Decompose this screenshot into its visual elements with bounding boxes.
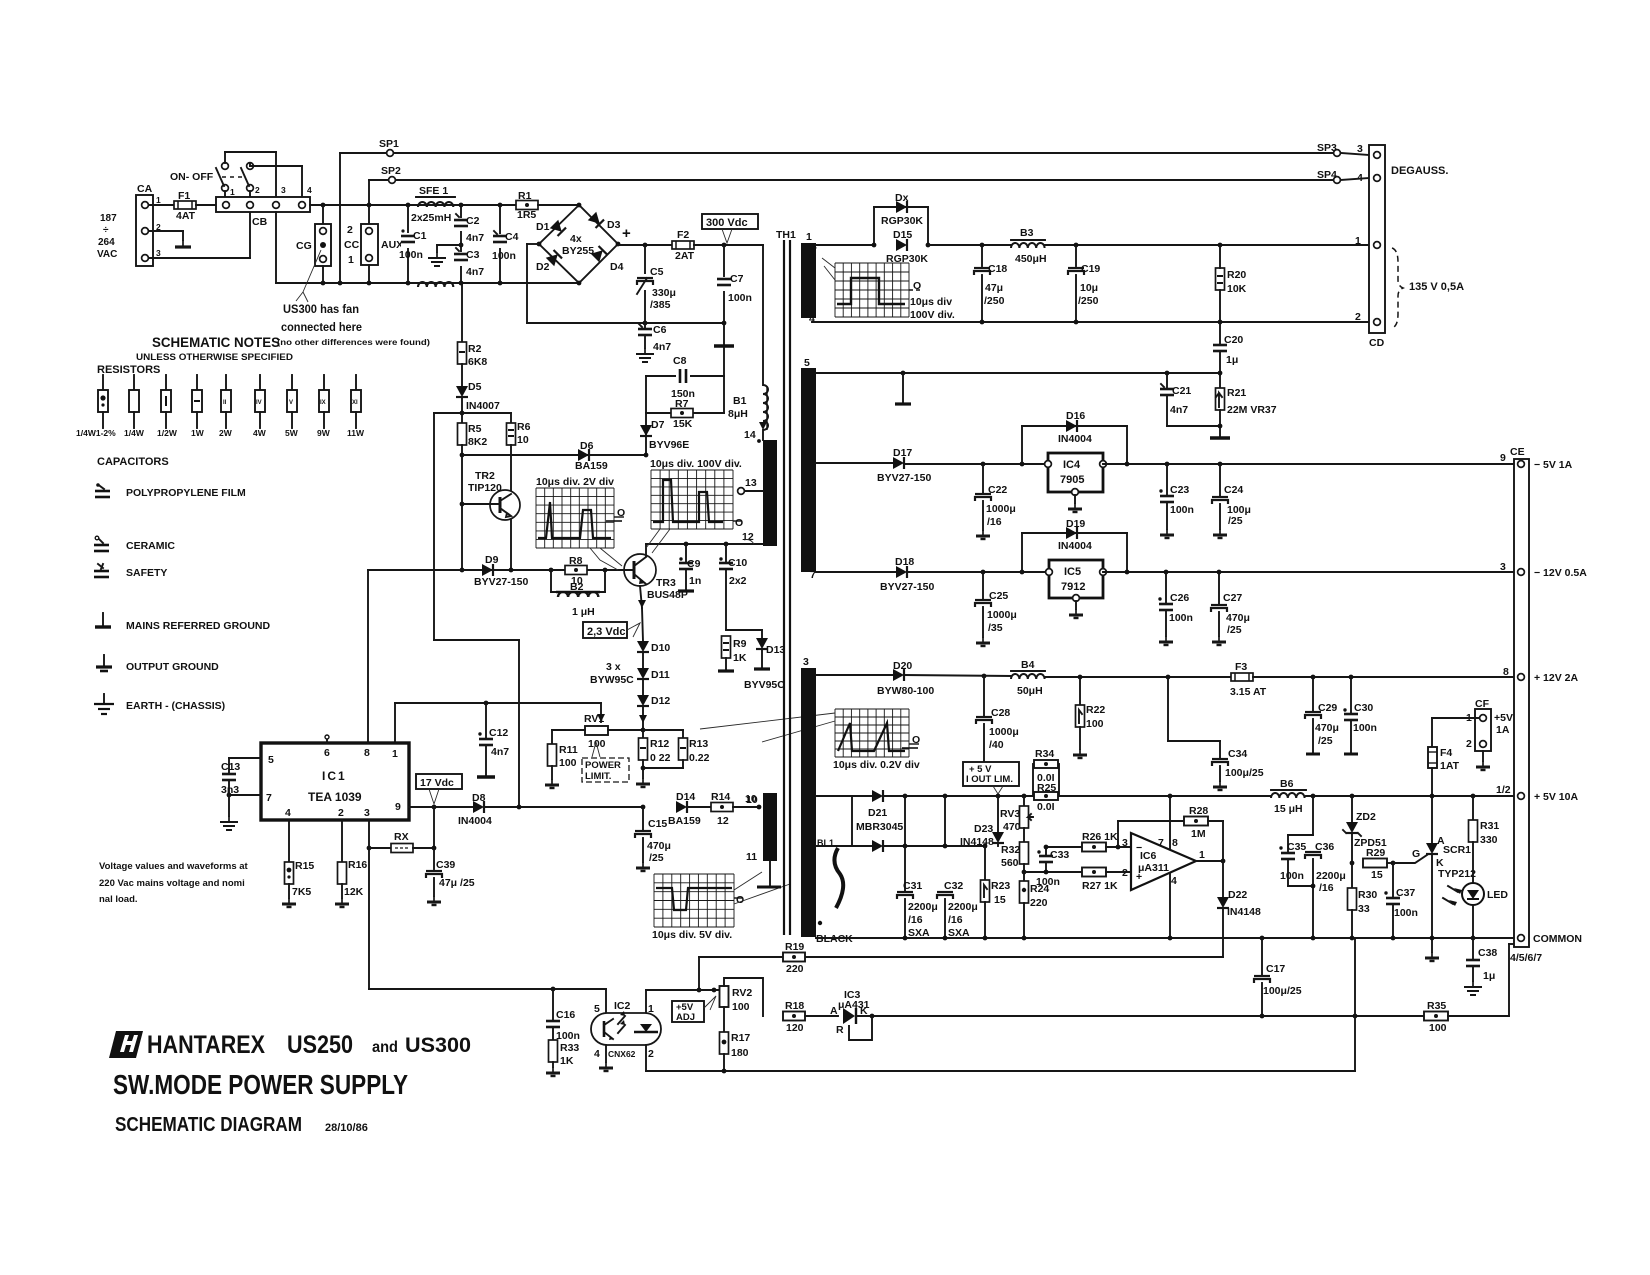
svg-text:12K: 12K bbox=[344, 886, 364, 898]
capacitor C9 1n bbox=[678, 544, 701, 591]
svg-text:SW.MODE POWER SUPPLY: SW.MODE POWER SUPPLY bbox=[113, 1069, 408, 1100]
TH1 lower primary bar pins 10-11 bbox=[745, 793, 781, 887]
svg-text:/40: /40 bbox=[989, 739, 1004, 751]
svg-text:− 12V 0.5A: − 12V 0.5A bbox=[1534, 567, 1587, 579]
svg-text:TIP120: TIP120 bbox=[468, 482, 502, 494]
svg-text:14: 14 bbox=[744, 429, 756, 441]
svg-text:IC2: IC2 bbox=[614, 1000, 631, 1012]
svg-text:1: 1 bbox=[348, 254, 354, 266]
svg-text:POLYPROPYLENE FILM: POLYPROPYLENE FILM bbox=[126, 487, 246, 499]
capacitor C1 100n bbox=[399, 205, 427, 283]
svg-text:4/5/6/7: 4/5/6/7 bbox=[1510, 952, 1542, 964]
svg-text:TYP212: TYP212 bbox=[1438, 868, 1476, 880]
diode D20 BYW80-100 bbox=[877, 660, 1011, 697]
wire CA pin1 to F1 bbox=[149, 204, 174, 206]
diode D1 bbox=[536, 220, 566, 236]
svg-text:CG: CG bbox=[296, 240, 312, 252]
svg-text:−: − bbox=[1136, 842, 1142, 854]
svg-text:RV2: RV2 bbox=[732, 987, 752, 999]
capacitor C21 4n7 bbox=[1160, 373, 1191, 426]
diode D23 IN4148 bbox=[960, 796, 1004, 848]
wire feedback line R19 bbox=[699, 957, 1223, 990]
diode D12 bbox=[637, 679, 670, 729]
svg-text:2x2: 2x2 bbox=[729, 575, 747, 587]
svg-text:C31: C31 bbox=[903, 880, 922, 892]
svg-text:IC6: IC6 bbox=[1140, 850, 1157, 862]
capacitor C24 100u/25 bbox=[1212, 464, 1251, 538]
svg-text:1: 1 bbox=[156, 195, 161, 205]
wire IC6 supply riser bbox=[1169, 796, 1171, 849]
resistor R2 6K8 bbox=[458, 283, 488, 368]
svg-text:B3: B3 bbox=[1020, 227, 1034, 239]
svg-text:2200μ: 2200μ bbox=[948, 901, 978, 913]
svg-text:R17: R17 bbox=[731, 1032, 750, 1044]
op-amp IC6 uA311 bbox=[1122, 833, 1205, 890]
svg-text:2: 2 bbox=[1122, 867, 1128, 879]
3x BYW95C label bbox=[590, 661, 634, 686]
svg-text:2: 2 bbox=[255, 185, 260, 195]
svg-text:D7: D7 bbox=[651, 419, 665, 431]
svg-text:3: 3 bbox=[1357, 143, 1363, 155]
svg-text:D13: D13 bbox=[766, 644, 785, 656]
SP4 bbox=[1317, 169, 1369, 184]
TH1 primary winding bar bbox=[763, 440, 777, 546]
svg-text:2: 2 bbox=[1355, 311, 1361, 323]
legend output ground bbox=[96, 655, 219, 673]
svg-text:TR3: TR3 bbox=[656, 577, 676, 589]
svg-text:/25: /25 bbox=[1227, 624, 1242, 636]
capacitor C29 470u/25 bbox=[1305, 677, 1339, 754]
svg-text:3: 3 bbox=[1122, 837, 1128, 849]
svg-text:BYV27-150: BYV27-150 bbox=[474, 576, 528, 588]
svg-text:D4: D4 bbox=[610, 261, 624, 273]
svg-text:C38: C38 bbox=[1478, 947, 1497, 959]
svg-text:R2: R2 bbox=[468, 343, 482, 355]
legend resistor 1/2W bbox=[157, 375, 178, 438]
svg-text:D3: D3 bbox=[607, 219, 621, 231]
svg-text:100n: 100n bbox=[728, 292, 752, 304]
svg-text:2: 2 bbox=[648, 1048, 654, 1060]
legend ceramic cap bbox=[94, 536, 175, 552]
legend resistor 1/4W 1-2% bbox=[76, 375, 116, 438]
inductor B6 15uH bbox=[1271, 778, 1306, 815]
svg-text:7905: 7905 bbox=[1060, 474, 1084, 486]
capacitor C7 100n bbox=[716, 245, 752, 323]
wire IC6 non-inverting line bbox=[1024, 870, 1082, 875]
svg-text:D17: D17 bbox=[893, 447, 912, 459]
svg-text:US250: US250 bbox=[287, 1031, 353, 1059]
svg-text:and: and bbox=[372, 1039, 398, 1056]
legend resistor 11W bbox=[347, 375, 365, 438]
svg-text:10μ: 10μ bbox=[1080, 282, 1098, 294]
svg-text:3: 3 bbox=[364, 807, 370, 819]
switch S1 pole 1 bbox=[216, 152, 276, 197]
legend earth chassis ground bbox=[94, 694, 225, 714]
svg-text:6K8: 6K8 bbox=[468, 356, 487, 368]
diode D18 BYV27-150 bbox=[880, 556, 1049, 593]
svg-text:10μs div. 2V div: 10μs div. 2V div bbox=[536, 476, 614, 488]
svg-text:D2: D2 bbox=[536, 261, 550, 273]
resistor R17 180 bbox=[720, 1007, 751, 1073]
wire IC1 pin3 down to opto bus bbox=[369, 820, 606, 991]
svg-text:R27 1K: R27 1K bbox=[1082, 880, 1118, 892]
svg-text:LIMIT.: LIMIT. bbox=[585, 771, 611, 782]
resistor R16 12K bbox=[335, 820, 367, 907]
svg-text:180: 180 bbox=[731, 1047, 749, 1059]
inductor B4 50uH bbox=[1011, 659, 1045, 697]
svg-text:C35: C35 bbox=[1287, 841, 1306, 853]
diode D3 bbox=[588, 212, 621, 231]
diode D11 bbox=[637, 652, 670, 681]
svg-text:V: V bbox=[289, 400, 293, 406]
svg-text:1000μ: 1000μ bbox=[989, 726, 1019, 738]
capacitor C3 4n7 bbox=[454, 245, 484, 283]
TH1 secondary bar A pins 1-4 bbox=[801, 231, 816, 325]
TH1 secondary bar C pin 3 bbox=[801, 656, 853, 945]
135V 0,5A brace bbox=[1392, 248, 1464, 328]
diode D8 IN4004 bbox=[458, 792, 645, 827]
svg-text:10μs div. 0.2V div: 10μs div. 0.2V div bbox=[833, 759, 920, 771]
capacitor C37 100n bbox=[1384, 863, 1418, 938]
svg-text:IN4004: IN4004 bbox=[458, 815, 492, 827]
svg-text:1 μH: 1 μH bbox=[572, 606, 595, 618]
thyristor SCR1 TYP212 bbox=[1412, 796, 1476, 938]
svg-text:4: 4 bbox=[307, 185, 312, 195]
capacitor C28 1000u/40 bbox=[976, 676, 1019, 772]
svg-text:B1: B1 bbox=[733, 395, 747, 407]
svg-text:RGP30K: RGP30K bbox=[881, 215, 923, 227]
resistor R5 8K2 bbox=[458, 413, 488, 455]
svg-text:5: 5 bbox=[268, 754, 274, 766]
resistor R13 0.22 bbox=[641, 730, 710, 770]
svg-text:1K: 1K bbox=[733, 652, 747, 664]
capacitor C15 470u/25 bbox=[635, 807, 671, 871]
wire CA pin2 to mains ground bbox=[149, 231, 191, 247]
svg-text:C37: C37 bbox=[1396, 887, 1415, 899]
svg-text:15 μH: 15 μH bbox=[1274, 803, 1303, 815]
svg-text:IN4004: IN4004 bbox=[1058, 433, 1092, 445]
svg-text:C1: C1 bbox=[413, 230, 427, 242]
svg-text:R33: R33 bbox=[560, 1042, 579, 1054]
svg-text:1W: 1W bbox=[191, 428, 205, 438]
svg-text:7K5: 7K5 bbox=[292, 886, 311, 898]
svg-text:4n7: 4n7 bbox=[1170, 404, 1188, 416]
wire D21 cathode rail lower bbox=[905, 844, 987, 849]
svg-text:11W: 11W bbox=[347, 428, 365, 438]
legend resistor 1W bbox=[191, 375, 205, 438]
svg-text:Dx: Dx bbox=[895, 192, 909, 204]
wire TH1 pin5 line bbox=[816, 371, 1222, 376]
shunt regulator IC3 uA431 bbox=[830, 989, 874, 1040]
svg-text:R12: R12 bbox=[650, 738, 669, 750]
wire opto top line to RV2 bbox=[699, 988, 718, 993]
svg-text:100: 100 bbox=[732, 1001, 750, 1013]
svg-text:RV3: RV3 bbox=[1000, 808, 1020, 820]
svg-text:CE: CE bbox=[1510, 446, 1525, 458]
svg-text:R31: R31 bbox=[1480, 820, 1499, 832]
svg-text:R22: R22 bbox=[1086, 704, 1105, 716]
capacitor C13 3n3 bbox=[220, 758, 261, 830]
wire +5V rail to B6 bbox=[1059, 794, 1271, 799]
svg-text:IC5: IC5 bbox=[1064, 566, 1081, 578]
diode D17 BYV27-150 bbox=[877, 447, 1048, 484]
SP1 spark gap bbox=[340, 138, 1333, 283]
svg-text:3 x: 3 x bbox=[606, 661, 621, 673]
capacitor C38 1u bbox=[1464, 936, 1497, 995]
svg-text:C25: C25 bbox=[989, 590, 1008, 602]
wire R29 to SCR gate bbox=[1393, 855, 1427, 863]
svg-text:100μ/25: 100μ/25 bbox=[1263, 985, 1302, 997]
svg-text:50μH: 50μH bbox=[1017, 685, 1043, 697]
switch S1 pole 2 bbox=[225, 163, 302, 198]
resistor R9 1K bbox=[718, 636, 747, 671]
svg-text:R21: R21 bbox=[1227, 387, 1246, 399]
svg-text:C9: C9 bbox=[687, 558, 701, 570]
capacitor C26 100n bbox=[1158, 572, 1193, 645]
svg-text:300 Vdc: 300 Vdc bbox=[706, 217, 748, 229]
svg-text:1R5: 1R5 bbox=[517, 209, 536, 221]
svg-text:C19: C19 bbox=[1081, 263, 1100, 275]
diode D4 bbox=[591, 246, 624, 273]
legend resistor 1/4W bbox=[124, 375, 145, 438]
svg-text:F2: F2 bbox=[677, 229, 689, 241]
17 Vdc label box bbox=[416, 774, 462, 804]
svg-text:XI: XI bbox=[352, 400, 358, 406]
svg-text:5: 5 bbox=[804, 357, 810, 369]
svg-text:D23: D23 bbox=[974, 823, 993, 835]
legend mains referred ground bbox=[95, 613, 271, 632]
US300 fan note text bbox=[277, 302, 430, 347]
svg-text:O: O bbox=[913, 280, 921, 292]
svg-text:SP3: SP3 bbox=[1317, 142, 1337, 154]
svg-text:R6: R6 bbox=[517, 421, 531, 433]
oscillogram grid G1 100V div bbox=[822, 258, 955, 321]
wire bridge + output to F2 bbox=[618, 243, 672, 248]
svg-text:+ 5V 10A: + 5V 10A bbox=[1534, 791, 1578, 803]
oscillogram grid G4 0.2V div bbox=[700, 709, 920, 771]
svg-text:R29: R29 bbox=[1366, 847, 1385, 859]
svg-text:1/2: 1/2 bbox=[1496, 784, 1511, 796]
svg-text:D21: D21 bbox=[868, 807, 887, 819]
wire TH1 pin6 line bbox=[816, 462, 893, 464]
svg-text:220 Vac mains voltage and nomi: 220 Vac mains voltage and nomi bbox=[99, 878, 245, 889]
wire CB pin3 down to neutral bus bbox=[275, 212, 277, 283]
svg-text:17 Vdc: 17 Vdc bbox=[420, 777, 454, 789]
svg-text:R20: R20 bbox=[1227, 269, 1246, 281]
svg-text:F3: F3 bbox=[1235, 661, 1247, 673]
capacitor C8 150n bbox=[646, 355, 724, 413]
svg-text:28/10/86: 28/10/86 bbox=[325, 1122, 368, 1134]
svg-text:IC4: IC4 bbox=[1063, 459, 1081, 471]
capacitor C31 2200u/16 SXA bbox=[897, 846, 938, 939]
svg-text:4n7: 4n7 bbox=[491, 746, 509, 758]
wire D5 node to R6 bbox=[462, 412, 511, 414]
svg-text:US300: US300 bbox=[405, 1034, 471, 1057]
svg-text:IN4148: IN4148 bbox=[960, 836, 994, 848]
svg-text:BYW95C: BYW95C bbox=[590, 674, 634, 686]
svg-text:C5: C5 bbox=[650, 266, 664, 278]
capacitor C5 330u/385 bbox=[634, 245, 676, 323]
resistor R15 7K5 bbox=[282, 820, 314, 907]
svg-text:220: 220 bbox=[786, 963, 804, 975]
svg-text:/250: /250 bbox=[1078, 295, 1099, 307]
resistor R11 100 bbox=[545, 730, 585, 788]
svg-text:B6: B6 bbox=[1280, 778, 1294, 790]
inductor B1 8uH bbox=[728, 385, 768, 440]
svg-text:/16: /16 bbox=[987, 516, 1002, 528]
svg-text:R23: R23 bbox=[991, 880, 1010, 892]
svg-text:3: 3 bbox=[156, 248, 161, 258]
wire B6 to CE pin1/2 bbox=[1306, 794, 1517, 799]
legend resistor 9W bbox=[317, 375, 331, 438]
ground stub below SCR1 bbox=[1425, 938, 1439, 961]
svg-text:4n7: 4n7 bbox=[653, 341, 671, 353]
wire IC5 output to CE pin3 bbox=[1103, 570, 1517, 575]
capacitor C6 4n7 with earth bbox=[636, 323, 671, 362]
resistor R21 22M VR37 bbox=[1210, 375, 1277, 438]
svg-text:7912: 7912 bbox=[1061, 581, 1085, 593]
svg-text:C8: C8 bbox=[673, 355, 687, 367]
svg-text:/385: /385 bbox=[650, 299, 671, 311]
svg-text:R5: R5 bbox=[468, 423, 482, 435]
capacitor C16 100n bbox=[546, 989, 580, 1042]
svg-text:2: 2 bbox=[1466, 738, 1472, 750]
resistor R35 100 bbox=[1424, 944, 1514, 1034]
capacitor C36 2200u/16 bbox=[1305, 841, 1346, 938]
resistor R25 0.01 bbox=[1034, 782, 1058, 813]
svg-text:C18: C18 bbox=[988, 263, 1007, 275]
svg-text:TR2: TR2 bbox=[475, 470, 495, 482]
svg-text:220: 220 bbox=[1030, 897, 1048, 909]
svg-text:470μ: 470μ bbox=[1315, 722, 1339, 734]
resistor R20 10K bbox=[1216, 245, 1247, 322]
resistor R1 1R5 bbox=[516, 190, 538, 221]
capacitor C18 47u/250 bbox=[974, 245, 1007, 322]
svg-text:TH1: TH1 bbox=[776, 229, 796, 241]
svg-text:+5V: +5V bbox=[1494, 712, 1513, 724]
resistor R19 220 bbox=[783, 941, 805, 975]
svg-text:1: 1 bbox=[1355, 235, 1361, 247]
oscillogram grid G3 100V div bbox=[646, 458, 743, 553]
svg-text:SCHEMATIC DIAGRAM: SCHEMATIC DIAGRAM bbox=[115, 1114, 302, 1136]
connector CG bbox=[296, 205, 331, 283]
legend resistor 5W bbox=[285, 375, 299, 438]
svg-text:D19: D19 bbox=[1066, 518, 1085, 530]
svg-text:F1: F1 bbox=[178, 190, 190, 202]
svg-text:C4: C4 bbox=[505, 231, 519, 243]
capacitor C27 470u/25 bbox=[1211, 572, 1250, 645]
svg-text:CERAMIC: CERAMIC bbox=[126, 540, 175, 552]
svg-text:D12: D12 bbox=[651, 695, 670, 707]
svg-text:4: 4 bbox=[285, 807, 291, 819]
svg-text:1000μ: 1000μ bbox=[986, 503, 1016, 515]
svg-text:IV: IV bbox=[256, 400, 262, 406]
svg-text:/16: /16 bbox=[948, 914, 963, 926]
diode D10 bbox=[637, 641, 670, 654]
diode D22 IN4148 bbox=[1217, 861, 1261, 957]
resistor R7 15K bbox=[646, 398, 724, 430]
wire IC6 inverting input line bbox=[1044, 845, 1082, 850]
diode D15 RGP30K bbox=[816, 229, 930, 265]
svg-text:100μ/25: 100μ/25 bbox=[1225, 767, 1264, 779]
svg-text:RX: RX bbox=[394, 831, 409, 843]
svg-text:4: 4 bbox=[1171, 875, 1177, 887]
capacitor C17 100u/25 bbox=[1254, 938, 1302, 1018]
wire IC1 pin1 to RV1 wiper bbox=[395, 701, 605, 743]
svg-text:10μs div. 100V div.: 10μs div. 100V div. bbox=[650, 458, 742, 470]
svg-text:15K: 15K bbox=[673, 418, 693, 430]
svg-text:SAFETY: SAFETY bbox=[126, 567, 167, 579]
svg-text:R18: R18 bbox=[785, 1000, 804, 1012]
resistor R14 12 bbox=[711, 791, 761, 827]
legend safety cap bbox=[94, 564, 167, 579]
wire C21 to R21 bottom bbox=[1167, 424, 1222, 429]
svg-text:4AT: 4AT bbox=[176, 210, 196, 222]
svg-text:SP1: SP1 bbox=[379, 138, 399, 150]
svg-text:HANTAREX: HANTAREX bbox=[147, 1031, 265, 1059]
svg-text:R15: R15 bbox=[295, 860, 314, 872]
wire D5 node to left riser bbox=[434, 411, 519, 807]
svg-text:100V div.: 100V div. bbox=[910, 309, 955, 321]
svg-text:O: O bbox=[735, 517, 743, 529]
connector CF bbox=[1466, 698, 1513, 770]
bridge rectifier 4x BY255 bbox=[537, 203, 631, 286]
wire +5V raw rail bbox=[905, 794, 1033, 799]
potentiometer RV2 100 bbox=[720, 978, 764, 1016]
svg-text:D9: D9 bbox=[485, 554, 499, 566]
resistor R34 0.01 bypass bbox=[1033, 748, 1059, 796]
svg-text:(no other differences were fou: (no other differences were found) bbox=[277, 337, 430, 347]
svg-text:1: 1 bbox=[806, 231, 812, 243]
svg-text:R28: R28 bbox=[1189, 805, 1208, 817]
svg-text:EARTH - (CHASSIS): EARTH - (CHASSIS) bbox=[126, 700, 225, 712]
svg-text:nal load.: nal load. bbox=[99, 894, 138, 905]
capacitor C30 100n bbox=[1343, 677, 1377, 754]
SP2 spark gap bbox=[369, 165, 1333, 205]
svg-text:C2: C2 bbox=[466, 215, 480, 227]
svg-text:D1: D1 bbox=[536, 221, 550, 233]
svg-text:1: 1 bbox=[648, 1003, 654, 1015]
svg-text:POWER: POWER bbox=[585, 760, 621, 771]
svg-text:COMMON: COMMON bbox=[1533, 933, 1582, 945]
svg-text:15: 15 bbox=[1371, 869, 1383, 881]
resistor R18 120 bbox=[783, 1000, 838, 1034]
svg-text:C22: C22 bbox=[988, 484, 1007, 496]
capacitor C39 47u/25 bbox=[426, 848, 475, 905]
resistor R28 1M feedback bbox=[1118, 805, 1223, 861]
ground stub on pin5 line bbox=[895, 373, 911, 404]
svg-text:MBR3045: MBR3045 bbox=[856, 821, 903, 833]
svg-text:R1: R1 bbox=[518, 190, 532, 202]
resistor R33 1K bbox=[546, 1027, 579, 1076]
svg-text:1K: 1K bbox=[560, 1055, 574, 1067]
svg-text:R9: R9 bbox=[733, 638, 747, 650]
connector AUX bbox=[344, 205, 403, 283]
svg-text:BYV96E: BYV96E bbox=[649, 439, 689, 451]
svg-text:330: 330 bbox=[1480, 834, 1498, 846]
svg-text:+: + bbox=[622, 225, 631, 242]
resistor R12 0.22 bbox=[636, 730, 671, 787]
resistor R30 33 bbox=[1348, 863, 1378, 938]
svg-text:47μ: 47μ bbox=[985, 282, 1003, 294]
svg-text:10: 10 bbox=[517, 434, 529, 446]
svg-text:10: 10 bbox=[745, 793, 757, 805]
svg-text:3: 3 bbox=[803, 656, 809, 668]
svg-text:D11: D11 bbox=[651, 669, 670, 681]
svg-text:SCR1: SCR1 bbox=[1443, 844, 1471, 856]
svg-text:1: 1 bbox=[1199, 849, 1205, 861]
fuse F3 3.15AT bbox=[1230, 661, 1267, 698]
